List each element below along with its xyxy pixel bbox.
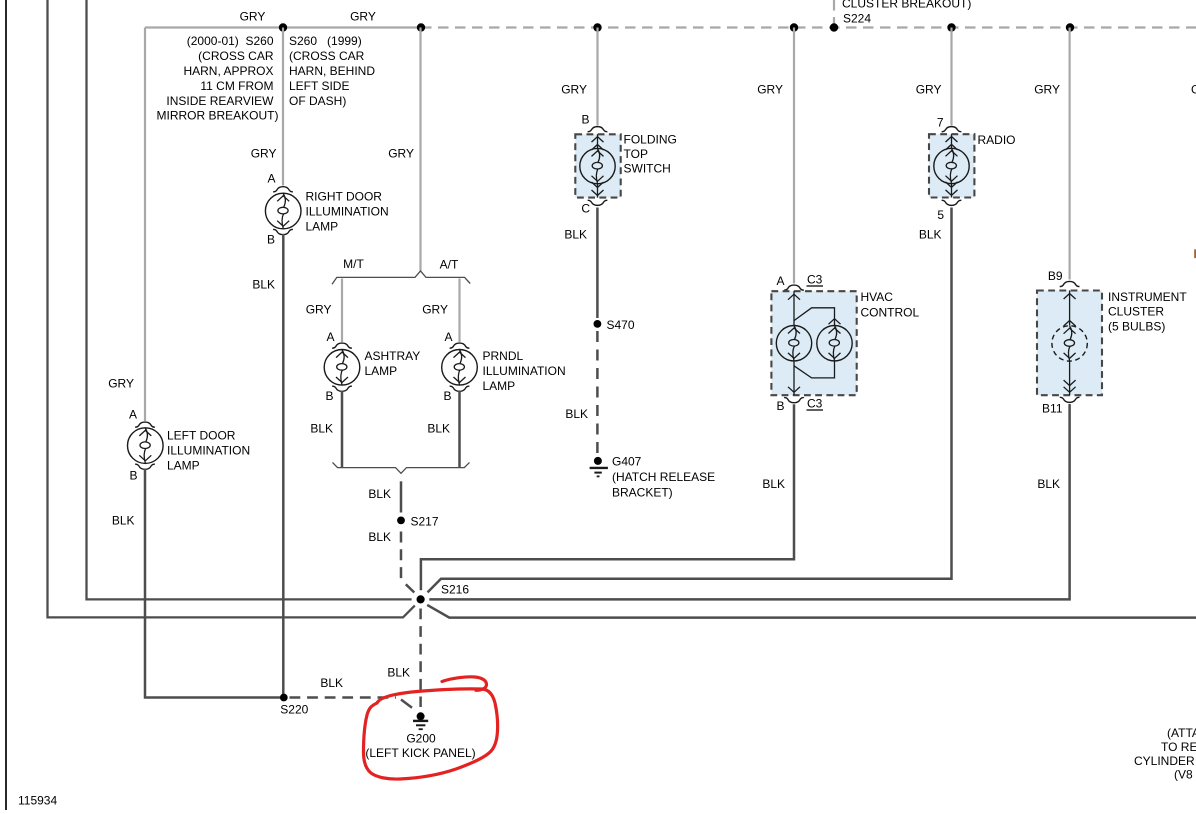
svg-text:(V8: (V8 (1174, 768, 1193, 782)
ground G407 (590, 457, 608, 477)
svg-text:S220: S220 (280, 703, 308, 717)
svg-text:B: B (129, 469, 137, 483)
svg-text:BLK: BLK (564, 228, 587, 242)
svg-text:A: A (444, 330, 452, 344)
connector box FOLDING TOP SWITCH (575, 134, 620, 197)
wire: dashed BLK S220 toward G200 (290, 696, 397, 699)
connector terminal bottom of left door lamp (135, 464, 155, 469)
node folding-top branch dot (593, 23, 601, 31)
wire: dashed BLK S470 to G407 (596, 331, 599, 455)
wire: GRY drop from S260 1999 to M/T-A/T brace (419, 28, 421, 271)
wire: right door lamp GRY drop (282, 28, 284, 186)
svg-text:C3: C3 (807, 397, 823, 411)
svg-text:(ATTA: (ATTA (1167, 726, 1196, 740)
connector terminal bottom HVAC (784, 398, 804, 403)
svg-text:A: A (129, 408, 137, 422)
svg-text:GRY: GRY (561, 83, 587, 97)
connector terminal top cluster (1060, 281, 1080, 286)
svg-text:S470: S470 (607, 318, 635, 332)
HVAC entry line with arrow (793, 291, 795, 325)
connector terminal bottom ashtray lamp (332, 386, 352, 391)
wire: BLK brace to S217 (400, 481, 403, 512)
svg-text:BLK: BLK (368, 487, 391, 501)
wire: dashed diagonal into S216 (406, 584, 415, 592)
svg-text:G200: G200 (406, 732, 436, 746)
node S260 (2000-01) splice dot (279, 23, 287, 31)
node S216 splice dot (417, 595, 425, 603)
svg-text:LEFT SIDE: LEFT SIDE (289, 79, 349, 93)
svg-text:A/T: A/T (440, 258, 459, 272)
svg-text:C: C (581, 202, 590, 216)
svg-text:CYLINDER: CYLINDER (1134, 754, 1195, 768)
svg-text:LAMP: LAMP (483, 379, 516, 393)
svg-text:(2000-01) S260: (2000-01) S260 (187, 34, 274, 48)
svg-text:FOLDING: FOLDING (624, 133, 677, 147)
svg-text:5: 5 (937, 208, 944, 222)
wire: diagonal dash into G200 (401, 700, 412, 708)
svg-text:(HATCH RELEASE: (HATCH RELEASE (612, 470, 715, 484)
svg-text:A: A (776, 274, 784, 288)
svg-text:BLK: BLK (387, 666, 410, 680)
connector box INSTRUMENT CLUSTER (1037, 291, 1102, 396)
svg-text:TO RE: TO RE (1161, 740, 1196, 754)
svg-text:GRY: GRY (916, 83, 942, 97)
ground G200 (413, 712, 428, 729)
svg-text:S224: S224 (843, 12, 871, 26)
svg-text:BLK: BLK (919, 228, 942, 242)
wire: left BLK vertical to S216 lower horizontal (48, 0, 415, 617)
svg-text:HARN, APPROX: HARN, APPROX (183, 64, 273, 78)
connector terminal bottom of right door lamp (273, 229, 293, 234)
svg-text:B: B (325, 389, 333, 403)
lamp in folding top switch (580, 134, 615, 197)
svg-text:B: B (581, 113, 589, 127)
wire: instrument cluster GRY drop (1068, 28, 1070, 280)
svg-text:M/T: M/T (343, 257, 364, 271)
lamp in radio (934, 134, 969, 197)
wire: PRNDL GRY drop (458, 279, 460, 343)
svg-text:BLK: BLK (565, 407, 588, 421)
svg-text:MIRROR BREAKOUT): MIRROR BREAKOUT) (156, 109, 278, 123)
svg-text:BLK: BLK (1037, 477, 1060, 491)
wire: HVAC GRY drop (793, 28, 795, 284)
wire: RADIO BLK down-left-diagonal into S216 northeast (428, 208, 952, 593)
svg-text:S217: S217 (411, 515, 439, 529)
wire: left BLK vertical to S216 upper horizontal (87, 0, 412, 599)
connector terminal bottom PRNDL lamp (450, 386, 470, 391)
connector terminal top PRNDL lamp (450, 343, 470, 348)
node HVAC branch dot (790, 23, 798, 31)
svg-text:PRNDL: PRNDL (483, 349, 524, 363)
svg-text:BLK: BLK (762, 477, 785, 491)
svg-text:C3: C3 (807, 273, 823, 287)
connector terminal bottom folding top switch (588, 200, 608, 205)
wire: left GRY vertical of gray frame (144, 28, 146, 422)
svg-text:TOP: TOP (624, 147, 648, 161)
lamp HVAC left bulb (776, 326, 811, 361)
svg-text:LAMP: LAMP (306, 220, 339, 234)
svg-text:GRY: GRY (1034, 83, 1060, 97)
svg-text:BLK: BLK (252, 278, 275, 292)
connector terminal top ashtray lamp (332, 343, 352, 348)
wire: ashtray GRY drop (341, 279, 343, 343)
svg-text:GRY: GRY (757, 83, 783, 97)
svg-text:RADIO: RADIO (978, 133, 1016, 147)
wire: BLK folding top down to S470 (596, 208, 599, 319)
wire: top GRY bus dashed segment (421, 26, 1196, 28)
lamp RIGHT DOOR ILLUMINATION LAMP (265, 193, 301, 229)
svg-text:S260 (1999): S260 (1999) (289, 34, 362, 48)
wire: folding top switch GRY drop (596, 28, 598, 126)
svg-text:BLK: BLK (368, 530, 391, 544)
svg-text:GRY: GRY (251, 147, 277, 161)
connector terminal top radio (942, 127, 962, 132)
svg-text:ASHTRAY: ASHTRAY (365, 349, 421, 363)
svg-text:(LEFT KICK PANEL): (LEFT KICK PANEL) (365, 746, 475, 760)
cluster entry line with arrows (1069, 291, 1071, 326)
wire: S224 dashed stub up (833, 0, 835, 25)
connector terminal bottom radio (942, 200, 962, 205)
svg-text:B11: B11 (1042, 402, 1063, 416)
wire: dashed BLK S217 to S216 (400, 532, 403, 581)
svg-text:LEFT DOOR: LEFT DOOR (167, 429, 236, 443)
svg-text:CLUSTER: CLUSTER (1108, 305, 1164, 319)
svg-text:7: 7 (937, 116, 944, 130)
svg-text:GRY: GRY (240, 10, 266, 24)
svg-text:(CROSS CAR: (CROSS CAR (289, 49, 365, 63)
svg-text:LAMP: LAMP (167, 459, 200, 473)
wire: CLUSTER BLK down-left into S216 east (429, 404, 1069, 599)
svg-text:CONTROL: CONTROL (861, 306, 920, 320)
lamp LEFT DOOR ILLUMINATION LAMP (128, 428, 164, 464)
svg-text:BRACKET): BRACKET) (612, 486, 673, 500)
HVAC top branch to right lamp (794, 308, 835, 326)
svg-text:S216: S216 (441, 583, 469, 597)
connector box HVAC CONTROL (771, 291, 856, 395)
connector terminal top of left door lamp (135, 422, 155, 427)
brace top M/T A/T (332, 271, 470, 284)
svg-text:ILLUMINATION: ILLUMINATION (483, 364, 566, 378)
lamp cluster bulbs dashed circle (1052, 326, 1087, 361)
brace bottom M/T A/T (333, 462, 470, 473)
wire: HVAC BLK down-left-down into S216 north (421, 404, 794, 590)
svg-text:CLUSTER BREAKOUT): CLUSTER BREAKOUT) (842, 0, 971, 11)
lamp HVAC right bulb (817, 326, 852, 361)
svg-text:(CROSS CAR: (CROSS CAR (198, 49, 274, 63)
svg-text:GRY: GRY (1191, 83, 1196, 97)
partial letter right edge (1194, 249, 1196, 258)
connector terminal top of right door lamp (273, 187, 293, 192)
red hand-drawn circle around G200 (364, 689, 498, 779)
svg-text:B: B (443, 389, 451, 403)
svg-text:A: A (267, 172, 275, 186)
svg-text:SWITCH: SWITCH (624, 162, 671, 176)
svg-text:G407: G407 (612, 455, 642, 469)
node S470 splice dot (594, 320, 602, 328)
svg-text:BLK: BLK (310, 422, 333, 436)
svg-text:INSTRUMENT: INSTRUMENT (1108, 290, 1187, 304)
svg-text:GRY: GRY (350, 10, 376, 24)
svg-text:ILLUMINATION: ILLUMINATION (167, 444, 250, 458)
wire: far-left black vertical (5, 0, 7, 810)
svg-text:RIGHT DOOR: RIGHT DOOR (306, 190, 383, 204)
connector terminal bottom cluster (1060, 397, 1080, 402)
connector terminal top folding top switch (588, 127, 608, 132)
node S224 splice dot (830, 23, 838, 31)
wire: top GRY bus solid segment (145, 26, 421, 28)
cluster exit line with arrows (1069, 361, 1071, 395)
wire: S216 southeast diagonal to right edge (427, 605, 1196, 618)
HVAC exit line with arrow (793, 361, 795, 395)
svg-text:HVAC: HVAC (861, 290, 894, 304)
node instrument-cluster branch dot (1066, 23, 1074, 31)
svg-text:INSIDE REARVIEW: INSIDE REARVIEW (166, 94, 274, 108)
connector box RADIO (929, 134, 974, 197)
svg-text:115934: 115934 (18, 794, 57, 808)
node S217 splice dot (397, 517, 405, 525)
node radio branch dot (947, 23, 955, 31)
svg-text:ILLUMINATION: ILLUMINATION (306, 205, 389, 219)
node S260 (1999) splice dot (417, 23, 425, 31)
wire: radio GRY drop (950, 28, 952, 126)
connector terminal top HVAC (784, 285, 804, 290)
svg-text:GRY: GRY (306, 303, 332, 317)
svg-text:BLK: BLK (320, 676, 343, 690)
svg-text:LAMP: LAMP (365, 364, 398, 378)
svg-text:A: A (326, 330, 334, 344)
svg-text:BLK: BLK (427, 422, 450, 436)
wire: ashtray BLK down to brace (341, 391, 344, 467)
wire: dashed BLK S216 south to G200 (419, 609, 422, 708)
svg-text:B: B (267, 233, 275, 247)
lamp PRNDL ILLUMINATION LAMP (442, 350, 478, 386)
svg-text:OF DASH): OF DASH) (289, 94, 346, 108)
HVAC bottom branch from right lamp (794, 361, 835, 378)
svg-text:11 CM FROM: 11 CM FROM (200, 79, 273, 93)
svg-text:HARN, BEHIND: HARN, BEHIND (289, 64, 375, 78)
svg-text:GRY: GRY (388, 147, 414, 161)
svg-text:GRY: GRY (422, 303, 448, 317)
svg-text:GRY: GRY (108, 377, 134, 391)
lamp ASHTRAY LAMP (324, 350, 360, 386)
red circle overshoot hook (442, 677, 487, 690)
wire: PRNDL BLK down to brace (458, 391, 461, 467)
svg-text:B9: B9 (1048, 269, 1063, 283)
node S220 splice dot (280, 694, 288, 702)
svg-text:(5 BULBS): (5 BULBS) (1108, 320, 1165, 334)
svg-text:B: B (776, 399, 784, 413)
svg-text:BLK: BLK (112, 514, 135, 528)
wire: right door lamp BLK down to S220 (282, 234, 285, 698)
wire: left door lamp BLK down and right to S220 (145, 469, 280, 698)
